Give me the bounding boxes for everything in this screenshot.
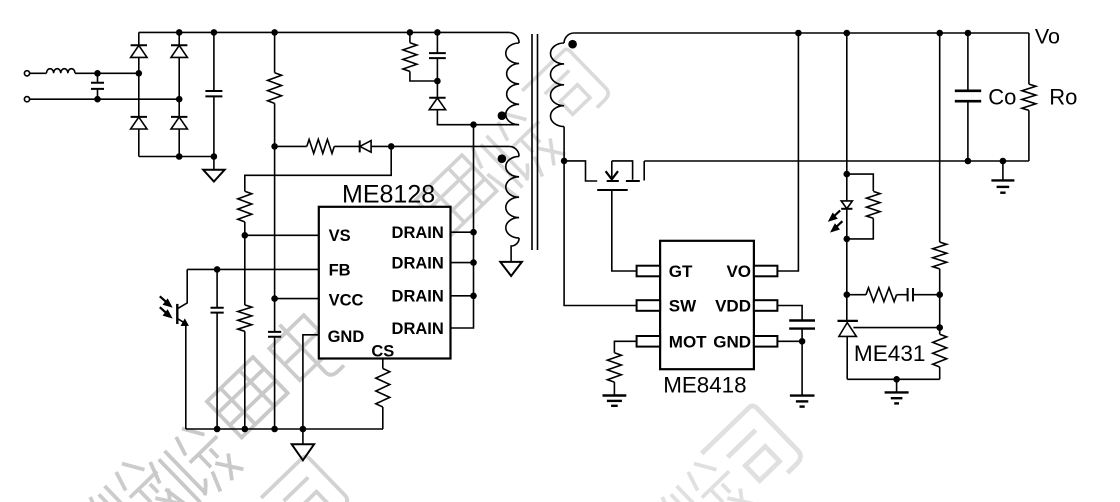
svg-text:ME8418: ME8418 [663, 373, 746, 398]
ground G2 [500, 262, 522, 276]
VDD pin wire [777, 306, 802, 321]
node dot RC junction right [936, 291, 943, 298]
wire R3 to D6 [334, 145, 359, 147]
transformer primary top bend [509, 32, 519, 43]
transformer aux top bend [509, 146, 519, 156]
wire J2 to bridge [30, 98, 180, 100]
watermark character MENG [207, 357, 288, 437]
svg-text:FB: FB [329, 261, 351, 279]
load resistor Ro [1022, 84, 1036, 110]
startup resistor R1 lead [274, 32, 276, 72]
output ground rail [644, 160, 1029, 162]
svg-text:VCC: VCC [329, 292, 364, 310]
load resistor Ro top lead [1028, 33, 1030, 84]
wire J1 to inductor [30, 72, 47, 74]
FB capacitor C5 plates [211, 308, 224, 313]
node dot rail GND [300, 426, 307, 433]
optocoupler phototransistor Q1 [177, 269, 188, 429]
watermark character (bottom-center, partial) [655, 450, 758, 502]
svg-text:ME431: ME431 [854, 341, 926, 366]
transformer secondary top bend [564, 33, 574, 43]
divider upper wire [939, 33, 941, 242]
ME431 cathode wire [846, 239, 848, 321]
svg-text:DRAIN: DRAIN [392, 320, 444, 338]
svg-text:Vo: Vo [1035, 25, 1060, 49]
IC U2 pin stub MOT [637, 336, 661, 347]
watermark character SI large [702, 404, 804, 502]
secondary phase dot [568, 40, 577, 49]
divider resistor R11 [933, 334, 947, 367]
primary phase dot [498, 111, 507, 120]
MOT resistor R7 [607, 353, 621, 382]
node dot ground rail Co [965, 158, 972, 165]
wire node to R9 [847, 294, 866, 296]
compensation resistor R9 [866, 288, 897, 302]
primary bottom wire [474, 124, 520, 126]
node dot D2 / line2 [176, 96, 183, 103]
VCC bus wire [274, 103, 276, 429]
AC input terminal J2 [24, 97, 29, 102]
IC U2 pin stub VO [754, 266, 778, 277]
clamp resistor R2 [403, 43, 417, 72]
CS pin wire [382, 359, 384, 369]
svg-text:DRAIN: DRAIN [392, 288, 444, 306]
node dot rail VO [795, 30, 802, 37]
aux resistor R3 [307, 139, 335, 153]
watermark character (bottom, partial) [261, 455, 350, 502]
wire R6 to ground rail [382, 407, 384, 429]
svg-text:MOT: MOT [669, 333, 707, 352]
ME431 bottom wire [847, 378, 940, 380]
bridge column 2 middle wire [178, 99, 180, 117]
IC U1 ME8128 body [319, 207, 451, 359]
LED light arrow 2 [831, 221, 842, 232]
GND pin wire [303, 335, 319, 429]
GND2 pin wire [777, 340, 802, 342]
MOT pin wire [614, 341, 636, 353]
clamp resistor R2 lead [409, 32, 411, 42]
svg-text:GND: GND [713, 333, 751, 352]
R8 bottom wire [847, 218, 874, 239]
svg-text:VS: VS [329, 227, 351, 245]
ground G1 [203, 157, 224, 182]
MOSFET Q2 channel [607, 180, 640, 182]
startup resistor R1 [268, 73, 282, 104]
top HV rail [139, 31, 509, 33]
diode D2 [171, 45, 187, 99]
divider resistor R10 [933, 242, 947, 269]
AC input terminal J1 [24, 71, 29, 76]
bridge bottom wire [139, 156, 214, 158]
svg-text:GND: GND [328, 328, 365, 346]
MOSFET Q2 gate lead [612, 190, 637, 271]
watermark character SI [522, 48, 611, 137]
node dot rail bulk cap [211, 29, 218, 36]
capacitor C1 leads [97, 73, 99, 99]
opto LED D7 [841, 201, 852, 239]
compensation capacitor C7 [897, 288, 940, 301]
svg-text:Ro: Ro [1049, 85, 1077, 110]
node dot rail C5 [214, 426, 221, 433]
capacitor C1 plates [91, 83, 104, 89]
node dot VS [242, 232, 249, 239]
node dot rail startup resistor [271, 29, 278, 36]
VDD capacitor C6 lower lead [801, 329, 803, 342]
inductor L1 [47, 69, 76, 74]
bridge column 1 middle wire [138, 73, 140, 117]
node dot REF [936, 324, 943, 331]
wire inductor to bridge [75, 72, 139, 74]
divider middle wire [939, 269, 941, 334]
node dot rail col2 [176, 29, 183, 36]
VO pin wire [777, 33, 798, 271]
node dot C1 bottom [94, 96, 101, 103]
node dot D1 / line1 [136, 70, 143, 77]
diode D1 [131, 45, 147, 73]
output capacitor Co plates [955, 91, 981, 101]
VS pin wire [245, 234, 319, 236]
IC U2 pin stub SW [637, 300, 661, 311]
node dot LED/R junction [844, 171, 851, 178]
opto LED branch upper wire [846, 33, 848, 201]
DRAIN pin wire 1 [451, 231, 474, 233]
node dot clamp RC/diode [434, 78, 441, 85]
DRAIN pin wire 3 [451, 295, 474, 297]
transformer aux winding [506, 156, 519, 238]
FB capacitor C5 leads [216, 269, 218, 429]
aux winding top wire [391, 145, 509, 147]
FB pin wire [187, 268, 319, 270]
node dot LED cathode junction [844, 236, 851, 243]
wire R5 to ground rail [244, 331, 246, 429]
node dot rail opto branch [844, 30, 851, 37]
shunt regulator U3 ME431 [838, 321, 858, 379]
watermark character DIAN [262, 308, 348, 395]
bridge column 2 upper wire [178, 32, 180, 45]
bridge column 1 upper wire [138, 32, 140, 45]
MOSFET Q2 body arrow [606, 161, 618, 179]
diode D3 [131, 117, 147, 157]
divider bottom wire [939, 367, 941, 379]
svg-text:SW: SW [669, 297, 697, 316]
watermark character XIAN [416, 155, 497, 235]
node dot C1 top [94, 70, 101, 77]
load resistor Ro bottom lead [1028, 110, 1030, 161]
node dot rail divider [936, 30, 943, 37]
DRAIN pin wire 2 [451, 262, 474, 264]
node dot aux sense tap [388, 143, 395, 150]
MOSFET Q2 gate bar [597, 189, 628, 191]
clamp resistor bottom wire [410, 71, 438, 81]
svg-text:Co: Co [988, 85, 1016, 110]
wire R4 to VS node [244, 222, 246, 235]
ground G6 [991, 161, 1014, 193]
transformer secondary winding [550, 43, 564, 127]
MOSFET Q2 drain lead [564, 161, 597, 181]
VCC capacitor C4 plates [268, 332, 281, 337]
VS divider resistor R4 [238, 191, 252, 222]
MOSFET Q2 source strap [612, 161, 633, 180]
drain bus vertical [451, 125, 474, 328]
ground G7 [885, 379, 909, 403]
aux rectifier line left segment [275, 145, 307, 147]
node dot bridge bottom cap [211, 153, 218, 160]
node dot drain 2 [470, 259, 477, 266]
node dot drain 3 [470, 293, 477, 300]
opto bias resistor R8 branch [847, 174, 874, 191]
node dot VCC diode junction [271, 143, 278, 150]
transformer core [532, 34, 538, 250]
clamp capacitor C3 leads [436, 32, 438, 81]
MOSFET Q2 source lead [643, 161, 645, 181]
node dot rail C4 [271, 426, 278, 433]
VS divider resistor R5 [238, 305, 252, 331]
node dot bridge bottom col2 [176, 153, 183, 160]
svg-text:VO: VO [726, 262, 751, 281]
output capacitor Co leads [967, 33, 969, 161]
VCC pin wire [275, 298, 319, 300]
node dot FB cap [214, 266, 221, 273]
opto bias resistor R8 [867, 191, 881, 218]
node dot drain 1 [470, 229, 477, 236]
output top rail [574, 32, 1029, 34]
svg-text:DRAIN: DRAIN [392, 255, 444, 273]
node dot rail clamp cap [434, 29, 441, 36]
aux winding bottom wire [511, 238, 519, 262]
node dot VCC pin junction [271, 295, 278, 302]
node dot rail Co [965, 30, 972, 37]
VDD capacitor C6 plates [789, 321, 815, 329]
aux phase dot [498, 154, 507, 163]
svg-text:DRAIN: DRAIN [392, 224, 444, 242]
light arrow 1 into Q1 [160, 296, 172, 307]
light arrow 2 into Q1 [160, 307, 172, 318]
node dot drain bus top [470, 121, 477, 128]
wire VS node down [244, 235, 246, 305]
bulk capacitor C2 plates [205, 91, 222, 96]
IC U2 pin stub VDD [754, 300, 778, 311]
VS sense drop wire [245, 146, 391, 191]
REF wire [853, 327, 939, 329]
aux diode D6 [360, 140, 392, 152]
svg-text:CS: CS [371, 343, 394, 361]
secondary drain vertical [564, 127, 637, 306]
IC U2 pin stub GND [754, 336, 778, 347]
node dot ground rail G6 [1000, 158, 1007, 165]
LED light arrow 1 [829, 210, 840, 221]
svg-text:ME8128: ME8128 [342, 181, 435, 209]
node dot G7 [893, 376, 900, 383]
primary ground rail [186, 428, 383, 430]
IC U2 pin stub GT [637, 266, 661, 277]
clamp diode D5 [429, 81, 473, 125]
node dot rail clamp resistor [407, 29, 414, 36]
clamp capacitor C3 plates [429, 53, 446, 58]
watermark character WEI [143, 415, 246, 502]
ground G3 [292, 429, 314, 460]
watermark character (bottom-left edge, partial) [83, 450, 186, 502]
node dot rail R5 [242, 426, 249, 433]
diode D4 [171, 117, 187, 157]
watermark character GONG [465, 100, 568, 203]
node dot GND2 [799, 338, 806, 345]
transformer primary winding [506, 43, 519, 125]
CS resistor R6 [376, 369, 390, 408]
node dot RC junction left [844, 291, 851, 298]
bulk capacitor C2 leads [213, 32, 215, 156]
svg-text:VDD: VDD [715, 297, 751, 316]
ground G4 [603, 382, 627, 406]
svg-text:GT: GT [669, 262, 693, 281]
node dot MOSFET drain [561, 158, 568, 165]
IC U2 ME8418 body [660, 241, 754, 369]
ground G5 [790, 341, 815, 406]
